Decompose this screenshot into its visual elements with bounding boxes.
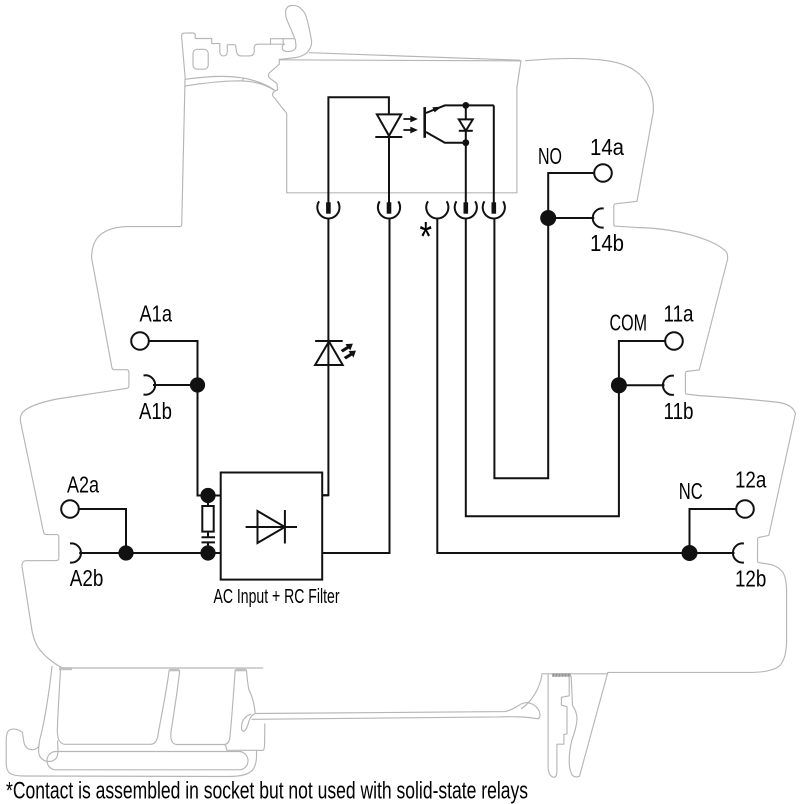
svg-text:14a: 14a <box>590 134 624 160</box>
svg-text:11b: 11b <box>664 398 694 424</box>
svg-text:11a: 11a <box>664 301 694 327</box>
svg-text:NC: NC <box>679 478 703 504</box>
svg-text:12a: 12a <box>735 467 767 493</box>
svg-text:NO: NO <box>538 143 562 169</box>
svg-text:A2a: A2a <box>67 471 99 497</box>
svg-text:A1b: A1b <box>139 398 172 424</box>
svg-text:*Contact is assembled in socke: *Contact is assembled in socket but not … <box>6 778 528 804</box>
svg-text:COM: COM <box>610 310 648 336</box>
svg-text:A1a: A1a <box>140 301 173 327</box>
svg-text:A2b: A2b <box>70 565 104 591</box>
svg-text:*: * <box>420 213 433 260</box>
svg-text:12b: 12b <box>735 565 766 591</box>
svg-text:AC Input + RC Filter: AC Input + RC Filter <box>214 585 340 608</box>
svg-text:14b: 14b <box>590 230 624 256</box>
